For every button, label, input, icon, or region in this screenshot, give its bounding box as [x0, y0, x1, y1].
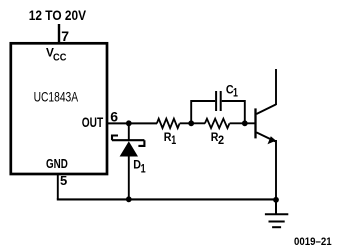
capacitor C1 plates	[215, 91, 217, 111]
wire D1 cathode	[128, 123, 130, 141]
wire IC pin 5	[57, 175, 59, 200]
node emitter/rail junction	[273, 197, 279, 203]
svg-text:UC1843A: UC1843A	[34, 89, 79, 105]
wire R1 to R2	[180, 122, 205, 124]
svg-text:1: 1	[141, 162, 146, 176]
svg-text:OUT: OUT	[82, 115, 104, 130]
wire bottom rail	[57, 198, 276, 200]
wire OUT pin 6 to R1	[107, 122, 157, 124]
resistor R2	[205, 119, 230, 128]
node OUT/D1 junction	[126, 120, 132, 126]
svg-text:6: 6	[110, 108, 118, 124]
svg-text:GND: GND	[46, 157, 68, 171]
wire D1 anode to bottom rail	[128, 156, 130, 199]
wire C1 left branch	[191, 101, 215, 123]
svg-text:2: 2	[218, 135, 224, 147]
IC U1 UC1843A body	[11, 43, 107, 174]
diode D1 (Schottky)	[112, 136, 144, 157]
transistor Q1 (NPN)	[256, 69, 277, 199]
node R1/R2/C1 junction	[188, 120, 194, 126]
wire VCC supply to pin 7	[58, 24, 60, 44]
svg-text:7: 7	[61, 28, 69, 44]
node R2/C1/base junction	[242, 120, 248, 126]
svg-text:12 TO 20V: 12 TO 20V	[29, 8, 86, 23]
node D1/rail junction	[126, 196, 132, 202]
wire R2 to Q1 base	[230, 122, 255, 124]
resistor R1	[157, 119, 180, 128]
wire C1 right branch	[222, 101, 245, 123]
svg-text:D: D	[133, 159, 141, 171]
ground	[265, 200, 288, 227]
svg-text:CC: CC	[53, 53, 67, 64]
svg-text:1: 1	[171, 135, 176, 147]
svg-text:1: 1	[233, 87, 238, 99]
svg-text:5: 5	[60, 173, 67, 188]
svg-text:0019–21: 0019–21	[294, 236, 332, 248]
svg-text:R: R	[164, 131, 172, 144]
